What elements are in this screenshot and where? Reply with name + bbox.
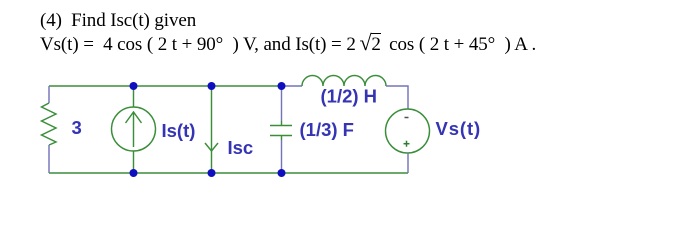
wire: Isc branch (green)	[211, 86, 213, 173]
svg-text:(1/2) H: (1/2) H	[321, 86, 378, 107]
capacitor C bottom plate	[270, 135, 292, 137]
node A (top, current source)	[130, 82, 138, 90]
node B (top, Isc)	[208, 82, 216, 90]
node C (top, capacitor)	[278, 82, 286, 90]
svg-text:Is(t): Is(t)	[162, 120, 196, 141]
wire: node to inductor (blue)	[282, 85, 303, 87]
wire: voltage source bottom stub (blue)	[407, 153, 409, 173]
wire: capacitor bottom stem (blue)	[281, 140, 283, 173]
svg-text:Isc: Isc	[228, 137, 254, 158]
svg-text:(1/3) F: (1/3) F	[300, 119, 354, 140]
voltage source plus sign	[404, 143, 410, 145]
wire: inductor to right corner (blue)	[386, 86, 408, 109]
node D (bottom, current source)	[130, 169, 138, 177]
resistor R (zigzag, green)	[42, 103, 57, 145]
svg-text:Vs(t): Vs(t)	[436, 118, 482, 139]
Isc arrowhead	[205, 143, 218, 151]
wire: left branch bottom stub (blue)	[48, 145, 50, 173]
wire: current source bottom stub (green)	[133, 151, 135, 173]
voltage source Vs(t) circle	[386, 109, 430, 153]
wire: bottom rail green	[49, 172, 408, 174]
capacitor C top stub (green)	[281, 121, 283, 126]
node E (bottom, Isc)	[208, 169, 216, 177]
wire: capacitor top stem (blue)	[281, 86, 283, 121]
node F (bottom, capacitor)	[278, 169, 286, 177]
current source Is(t) circle	[112, 107, 156, 151]
current source arrow	[133, 112, 135, 147]
capacitor C top plate	[270, 125, 292, 127]
capacitor C bottom stub (green)	[281, 136, 283, 141]
wire: current source top stub (green)	[133, 86, 135, 107]
svg-text:3: 3	[72, 117, 82, 138]
inductor L (4 humps, green)	[302, 76, 386, 87]
wire: left branch top stub (blue)	[48, 86, 50, 103]
wire: top rail green from left corner to capacitor node	[49, 85, 282, 87]
voltage source minus sign	[405, 117, 409, 119]
